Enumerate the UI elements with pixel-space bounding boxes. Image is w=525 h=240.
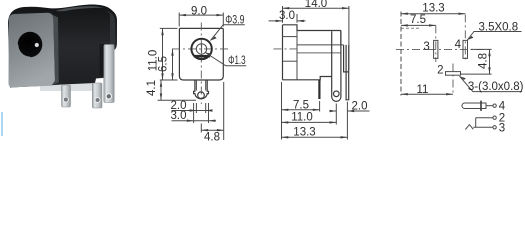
right side sheen <box>106 10 115 46</box>
svg-text:4: 4 <box>499 101 506 113</box>
bottom ext left <box>281 82 283 140</box>
dim 7.5 <box>282 109 320 111</box>
dim 11.0 <box>282 121 337 123</box>
pad 3 <box>434 40 438 58</box>
barrel ring (thick) <box>191 39 211 59</box>
dim 9.0 line <box>179 14 223 16</box>
ext lines pin sides <box>194 103 209 133</box>
svg-text:2: 2 <box>437 65 443 77</box>
dim 11 <box>401 93 453 95</box>
svg-text:7.5: 7.5 <box>410 14 426 26</box>
symbol pin 4 line <box>486 105 493 107</box>
schematic symbol: barrel <box>462 103 486 109</box>
dim 9.0 arrows <box>179 14 186 16</box>
svg-text:11: 11 <box>417 84 429 96</box>
center tick <box>201 45 203 54</box>
svg-text:9.0: 9.0 <box>191 5 207 17</box>
svg-text:Φ3.9: Φ3.9 <box>225 15 244 27</box>
lug hole <box>334 91 340 97</box>
bottom left <box>283 77 332 80</box>
big flat lug pin (right) <box>104 45 114 103</box>
pin 2 hole <box>95 98 100 103</box>
svg-text:3.5X0.8: 3.5X0.8 <box>479 21 519 33</box>
svg-text:13.3: 13.3 <box>293 127 315 139</box>
svg-text:13.3: 13.3 <box>422 3 444 15</box>
face right bevel <box>49 13 59 86</box>
front wall line <box>296 31 298 80</box>
bore line <box>297 44 344 46</box>
symbol pin 2 line <box>476 118 493 128</box>
left reference line <box>400 12 402 96</box>
svg-text:6.5: 6.5 <box>158 56 170 72</box>
dim 7.5 line <box>401 24 436 26</box>
ext pin/lug/back verticals <box>320 101 348 140</box>
svg-text:11.0: 11.0 <box>291 111 313 123</box>
hole rim light <box>18 45 30 58</box>
pin inner lines <box>196 80 205 91</box>
front pin 2 <box>92 83 102 108</box>
ring bottom chord <box>194 55 210 58</box>
symbol pin 2 circle <box>493 116 496 119</box>
svg-text:4.8: 4.8 <box>204 132 220 144</box>
symbol center bar <box>480 101 482 111</box>
dim 2.0 <box>172 110 213 112</box>
body square outline <box>179 28 223 80</box>
sleeve top <box>283 25 341 31</box>
dim 14.0 line <box>283 7 349 9</box>
back step <box>344 45 349 72</box>
front pin 1 <box>62 85 71 107</box>
svg-text:4: 4 <box>455 39 462 51</box>
svg-text:4.8: 4.8 <box>478 53 490 69</box>
dim 6.5 line <box>172 49 174 80</box>
shadow under body <box>40 83 102 91</box>
bore line lower <box>297 52 341 54</box>
pin hole <box>198 92 205 99</box>
lug hole <box>106 94 111 99</box>
sleeve inner line <box>283 36 298 38</box>
svg-text:3.0: 3.0 <box>279 10 295 22</box>
dim 13.3 line <box>401 13 465 15</box>
pad 4 <box>463 40 468 58</box>
svg-text:3: 3 <box>499 122 505 134</box>
leader 3.9 <box>211 25 245 41</box>
back pin <box>346 45 349 100</box>
center pin highlight inside hole <box>35 43 39 47</box>
dim 4.8 line <box>201 129 223 131</box>
left face <box>282 25 284 80</box>
center lug pin <box>332 31 341 101</box>
svg-text:7.5: 7.5 <box>293 99 309 111</box>
blue scan mark at left edge <box>1 112 3 136</box>
svg-text:Φ1.3: Φ1.3 <box>228 55 246 67</box>
svg-text:3.0: 3.0 <box>171 110 187 122</box>
vertical centerline <box>200 23 202 105</box>
horizontal centerline <box>396 48 492 50</box>
dim 13.3 <box>282 136 348 138</box>
pad 2 <box>446 72 461 76</box>
symbol pin 3 line <box>473 126 493 128</box>
ext line right for 4.8 <box>223 82 225 140</box>
symbol pin 4 circle <box>493 104 496 107</box>
leader 1.3 <box>205 53 246 66</box>
sleeve inner line lower <box>283 60 298 62</box>
front pin outline <box>194 80 209 99</box>
dim 2.0 (right) <box>331 110 370 112</box>
dim 4.8 <box>461 49 492 74</box>
label 3.5X0.8 with leader <box>467 32 521 41</box>
gap shadow left of lug <box>100 44 105 76</box>
front pin (thick) <box>318 80 320 99</box>
pin 1 hole <box>63 97 68 102</box>
front face <box>9 13 56 88</box>
barrel hole <box>18 32 43 57</box>
centerline <box>274 48 300 50</box>
top ridge highlight <box>56 6 104 11</box>
symbol pin 3 circle <box>493 126 496 129</box>
label 3-(3.0x0.8) with leader <box>460 76 523 91</box>
body right face <box>340 31 342 46</box>
horizontal centerline <box>172 48 231 50</box>
svg-text:14.0: 14.0 <box>305 0 327 10</box>
dim 4.1 line <box>160 80 162 100</box>
symbol switch contact <box>465 125 473 130</box>
dim 11.0 line <box>162 28 164 80</box>
pad 2 centerline <box>452 64 454 96</box>
pad 3 centerline <box>435 25 437 62</box>
svg-text:3-(3.0x0.8): 3-(3.0x0.8) <box>468 81 524 93</box>
ext line pin tip <box>158 99 197 101</box>
jack body silhouette <box>8 5 117 88</box>
pad 4 centerline <box>464 14 466 62</box>
ext lines left (top/bottom) <box>160 28 178 80</box>
inner pin circle <box>196 44 206 54</box>
dim 3.0 <box>172 120 217 122</box>
dim 14.0 ext <box>283 6 349 70</box>
dim 9.0 ext lines <box>179 13 223 27</box>
svg-text:2.0: 2.0 <box>352 100 368 112</box>
svg-text:3: 3 <box>423 41 429 53</box>
svg-text:4.1: 4.1 <box>146 80 158 96</box>
dim 3.0 line <box>269 20 306 22</box>
hidden body edge <box>401 27 421 29</box>
